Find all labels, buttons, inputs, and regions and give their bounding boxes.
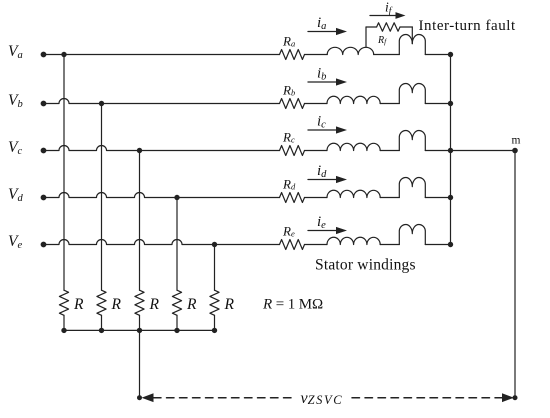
resistor R (phase d leakage) bbox=[172, 290, 181, 315]
svg-text:R: R bbox=[149, 296, 160, 313]
resistor Rf bbox=[377, 23, 400, 31]
resistor R (phase e leakage) bbox=[210, 290, 219, 315]
svg-text:ie: ie bbox=[317, 214, 326, 231]
stator winding coil Le2 bbox=[399, 225, 425, 245]
svg-text:vZSVC: vZSVC bbox=[301, 390, 344, 407]
stator winding coil La1 bbox=[327, 47, 374, 54]
svg-text:R = 1 MΩ: R = 1 MΩ bbox=[262, 297, 323, 313]
svg-text:Ra: Ra bbox=[282, 34, 295, 49]
terminal dot Va bbox=[41, 52, 47, 58]
svg-text:Vb: Vb bbox=[8, 92, 23, 110]
wire bus to node m bbox=[451, 150, 516, 152]
wire coil Lb2 to star bus bbox=[425, 103, 450, 105]
svg-text:ia: ia bbox=[317, 15, 326, 32]
wire tap phase d down to resistor R bbox=[176, 198, 178, 291]
junction node phase a at star bus bbox=[448, 52, 453, 57]
svg-text:m: m bbox=[512, 135, 521, 147]
stator winding coil Lb1 bbox=[327, 96, 380, 103]
vZSVC dashed line left segment bbox=[154, 397, 296, 399]
wire coil Le2 to star bus bbox=[425, 244, 450, 246]
junction node bottom bus (phase c) bbox=[137, 328, 142, 333]
terminal dot Vb bbox=[41, 101, 47, 107]
wire neutral centre down to vZSVC reference bbox=[139, 330, 141, 397]
resistor Rd bbox=[280, 193, 305, 203]
wire coil La2 to star bus bbox=[425, 54, 450, 56]
resistor Re bbox=[280, 240, 305, 250]
vZSVC dashed arrow left head bbox=[142, 393, 154, 402]
current arrow if bbox=[370, 15, 398, 17]
terminal dot Vd bbox=[41, 195, 47, 201]
wire resistor R to bottom bus (phase e) bbox=[214, 315, 216, 330]
svg-text:R: R bbox=[186, 296, 197, 313]
svg-text:Rb: Rb bbox=[282, 83, 295, 98]
node m bottom junction bbox=[513, 395, 518, 400]
stator winding coil Ld1 bbox=[327, 190, 380, 197]
resistor Rc bbox=[280, 146, 305, 156]
wire coil Lc2 to star bus bbox=[425, 150, 450, 152]
wire between coils phase e bbox=[380, 244, 399, 246]
svg-text:ib: ib bbox=[317, 66, 326, 83]
svg-text:if: if bbox=[385, 0, 393, 17]
wire fault branch top-right bbox=[400, 26, 412, 28]
wire between coils phase a bbox=[374, 54, 400, 56]
wire Vd to resistor Rd (with crossover hops) bbox=[44, 193, 280, 198]
wire fault branch top-left bbox=[366, 26, 377, 28]
svg-text:Rf: Rf bbox=[377, 35, 387, 46]
resistor R (phase a leakage) bbox=[59, 290, 68, 315]
svg-text:R: R bbox=[111, 296, 122, 313]
junction node bottom bus (phase e) bbox=[212, 328, 217, 333]
svg-text:Vc: Vc bbox=[8, 139, 22, 157]
svg-text:Va: Va bbox=[8, 43, 23, 61]
stator winding coil Ld2 bbox=[399, 178, 425, 198]
junction node bottom bus (phase a) bbox=[61, 328, 66, 333]
wire resistor R to bottom bus (phase a) bbox=[63, 315, 65, 330]
resistor Rb bbox=[280, 99, 305, 109]
wire between coils phase c bbox=[380, 150, 399, 152]
wire node m down to vZSVC bbox=[514, 151, 516, 398]
wire fault tap (vertical from coil La1 third arc peak) bbox=[365, 27, 367, 47]
svg-text:ic: ic bbox=[317, 114, 326, 131]
current arrow ib bbox=[308, 81, 338, 83]
stator winding coil Le1 bbox=[327, 237, 380, 244]
junction node phase c tap bbox=[137, 148, 142, 153]
svg-text:Vd: Vd bbox=[8, 186, 23, 204]
terminal dot Ve bbox=[41, 242, 47, 248]
junction node phase a tap bbox=[61, 52, 66, 57]
wire between coils phase b bbox=[380, 103, 399, 105]
junction node phase d at star bus bbox=[448, 195, 453, 200]
resistor Ra bbox=[280, 50, 305, 60]
svg-text:Inter-turn fault: Inter-turn fault bbox=[419, 18, 516, 34]
svg-text:R: R bbox=[224, 296, 235, 313]
terminal dot Vc bbox=[41, 148, 47, 154]
wire Va to resistor Ra (with crossover hops) bbox=[44, 54, 280, 56]
wire coil Ld2 to star bus bbox=[425, 197, 450, 199]
svg-text:Rc: Rc bbox=[282, 130, 295, 145]
wire tap phase c down to resistor R bbox=[139, 151, 141, 291]
junction node phase c at star bus bbox=[448, 148, 453, 153]
wire Ve to resistor Re (with crossover hops) bbox=[44, 240, 280, 245]
current arrow ie bbox=[308, 230, 338, 232]
junction node phase e tap bbox=[212, 242, 217, 247]
resistor R (phase b leakage) bbox=[97, 290, 106, 315]
wire Ra to stator coil bbox=[305, 54, 328, 56]
wire Rb to stator coil bbox=[305, 103, 328, 105]
wire Vb to resistor Rb (with crossover hops) bbox=[44, 99, 280, 104]
junction node phase e at star bus bbox=[448, 242, 453, 247]
svg-text:Stator windings: Stator windings bbox=[315, 257, 416, 274]
svg-text:id: id bbox=[317, 163, 327, 180]
current arrow ia bbox=[308, 31, 338, 33]
svg-text:Rd: Rd bbox=[282, 177, 296, 192]
stator winding coil Lc2 bbox=[399, 131, 425, 151]
junction node bottom bus (phase d) bbox=[174, 328, 179, 333]
vZSVC dashed arrow right head bbox=[502, 393, 514, 402]
wire tap phase e down to resistor R bbox=[214, 245, 216, 291]
wire Re to stator coil bbox=[305, 244, 328, 246]
vZSVC dashed line right segment bbox=[352, 397, 502, 399]
node neutral bottom bbox=[137, 395, 142, 400]
junction node phase d tap bbox=[174, 195, 179, 200]
junction node bottom bus (phase b) bbox=[99, 328, 104, 333]
svg-text:R: R bbox=[73, 296, 84, 313]
svg-text:Re: Re bbox=[282, 224, 295, 239]
wire between coils phase d bbox=[380, 197, 399, 199]
node m bbox=[512, 148, 518, 154]
wire Rd to stator coil bbox=[305, 197, 328, 199]
current arrow id bbox=[308, 179, 338, 181]
wire Vc to resistor Rc (with crossover hops) bbox=[44, 146, 280, 151]
stator winding coil Lc1 bbox=[327, 143, 380, 150]
wire resistor R to bottom bus (phase b) bbox=[101, 315, 103, 330]
wire tap phase b down to resistor R bbox=[101, 104, 103, 291]
stator winding coil Lb2 bbox=[399, 84, 425, 104]
current arrow ic bbox=[308, 129, 338, 131]
stator winding coil La2 bbox=[399, 35, 425, 55]
wire fault branch right vertical to coil La2 mid-tap bbox=[411, 27, 413, 44]
wire star point bus (right vertical) bbox=[450, 55, 452, 245]
junction node phase b at star bus bbox=[448, 101, 453, 106]
junction node phase b tap bbox=[99, 101, 104, 106]
wire bottom bus bbox=[64, 329, 215, 331]
resistor R (phase c leakage) bbox=[135, 290, 144, 315]
wire tap phase a down to resistor R bbox=[63, 55, 65, 291]
wire resistor R to bottom bus (phase d) bbox=[176, 315, 178, 330]
wire resistor R to bottom bus (phase c) bbox=[139, 315, 141, 330]
svg-text:Ve: Ve bbox=[8, 233, 22, 251]
wire Rc to stator coil bbox=[305, 150, 328, 152]
